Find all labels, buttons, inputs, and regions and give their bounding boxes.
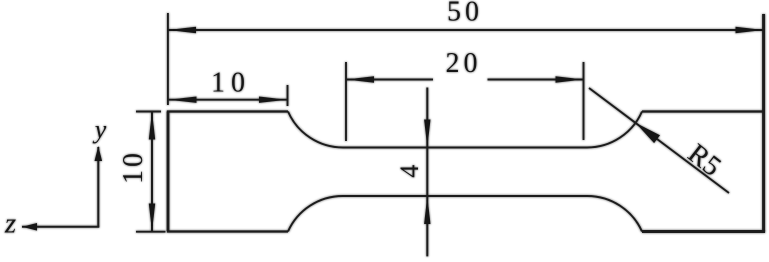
dim 10 top extension tick (287, 85, 289, 106)
dim 10 top left arrowhead (169, 97, 197, 103)
axis z line (22, 226, 99, 228)
dim 10 left dimension line (151, 112, 153, 232)
dim 10 left bottom tick (136, 231, 166, 233)
specimen bottom-right grip edge (642, 230, 765, 233)
specimen top-left grip edge (167, 110, 288, 112)
specimen left edge (167, 112, 170, 232)
dim 20 left arrowhead (346, 76, 374, 82)
dim 20 line left segment (346, 79, 433, 81)
svg-text:y: y (92, 115, 107, 144)
dim 10 left upper arrowhead (149, 112, 155, 140)
axis y arrowhead (95, 146, 103, 161)
dim 4 lower arrowhead (424, 196, 430, 224)
dim 10 left lower arrowhead (149, 204, 155, 232)
axis y line (97, 147, 99, 227)
specimen top-right grip edge (642, 110, 764, 112)
specimen gauge top edge (343, 147, 587, 149)
dim 50 extension line left (167, 13, 169, 105)
specimen right edge + 50 extension line (762, 14, 765, 232)
svg-text:4: 4 (395, 165, 424, 178)
axis z arrowhead (22, 223, 37, 231)
specimen bottom-left fillet (288, 196, 343, 232)
dim 4 line (426, 88, 428, 257)
specimen bottom-left grip edge (167, 230, 288, 232)
svg-text:z: z (4, 208, 16, 240)
R5 leader line (589, 88, 729, 193)
specimen gauge bottom edge (343, 195, 587, 197)
dim 20 line right segment (488, 79, 584, 81)
dim 50 line (169, 29, 764, 31)
specimen top-left fillet (288, 112, 343, 148)
dim 20 right arrowhead (556, 76, 584, 82)
dim 50 right arrowhead (736, 27, 764, 33)
specimen bottom-right fillet (587, 196, 642, 232)
specimen top-right fillet (587, 112, 642, 148)
R5 leader arrowhead (636, 123, 661, 143)
dim 10 top right arrowhead (259, 97, 287, 103)
dim 20 extension line left (345, 62, 347, 141)
dim 20 extension line right (583, 62, 585, 140)
dim 10 top line (169, 99, 288, 101)
dim 10 left top tick (136, 111, 161, 113)
dim 4 upper arrowhead (424, 120, 430, 148)
dim 50 left arrowhead (168, 27, 196, 33)
